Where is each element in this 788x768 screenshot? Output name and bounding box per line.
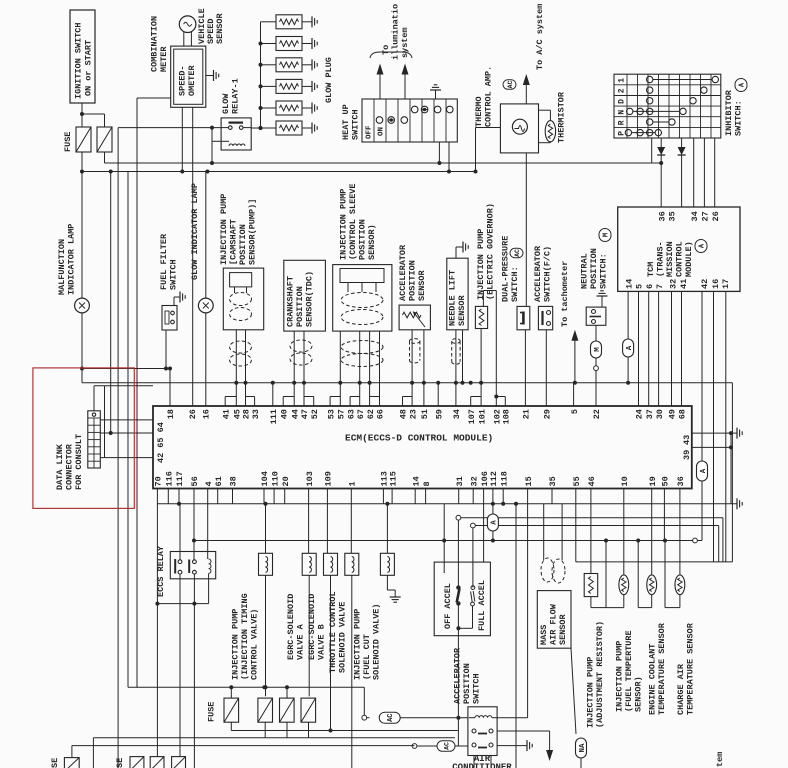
svg-text:(ELECTRIC GOVERNOR): (ELECTRIC GOVERNOR) (486, 203, 496, 300)
inhibitor diode wires (652, 138, 686, 207)
wire fuse2 to bus A (104, 152, 106, 163)
svg-text:SE: SE (50, 758, 60, 768)
engine coolant temperature sensor (638, 541, 656, 608)
svg-text:18: 18 (166, 409, 176, 419)
svg-text:16: 16 (201, 409, 211, 419)
svg-text:SOLENOID VALVE: SOLENOID VALVE (338, 602, 348, 673)
svg-text:108: 108 (502, 409, 512, 424)
fuse EGRC A (280, 698, 295, 722)
bottom horizontal line y737.7 (93, 737, 455, 739)
wires needle lift (454, 330, 465, 406)
ground neutral switch (597, 291, 608, 307)
svg-text:POSITION: POSITION (358, 219, 368, 260)
svg-text:115: 115 (388, 471, 398, 486)
svg-text:109: 109 (324, 471, 334, 486)
svg-text:47: 47 (300, 409, 310, 419)
throttle control solenoid valve (345, 553, 359, 575)
svg-text:INJECTION PUMP: INJECTION PUMP (339, 189, 349, 260)
dual-pressure switch label (501, 236, 524, 302)
svg-text:THERMO: THERMO (474, 96, 484, 127)
needle lift sensor box (447, 258, 468, 330)
fuse ECCS (224, 698, 239, 722)
svg-text:63: 63 (346, 409, 356, 419)
svg-text:VALVE A: VALVE A (296, 623, 306, 660)
glow plug 6 (259, 121, 318, 135)
svg-text:101: 101 (477, 409, 487, 424)
long vertical feeder wires (111, 128, 128, 768)
svg-text:To: To (381, 45, 391, 55)
wire TCM 14 to A pill (623, 291, 634, 384)
svg-text:40: 40 (279, 409, 289, 419)
svg-text:SWITCH:: SWITCH: (510, 266, 520, 302)
AC pill 2 (412, 741, 468, 752)
svg-text:SWITCH(F/C): SWITCH(F/C) (543, 246, 553, 302)
svg-text:ECM(ECCS-D CONTROL MODULE): ECM(ECCS-D CONTROL MODULE) (345, 433, 493, 444)
glow indicator lamp (198, 298, 213, 313)
to tachometer arrow (560, 261, 578, 385)
svg-text:CONTROL VALVE): CONTROL VALVE) (250, 609, 260, 680)
camshaft sensor box (223, 268, 263, 330)
svg-text:37: 37 (645, 409, 655, 419)
svg-text:(FUEL CUT: (FUEL CUT (362, 634, 372, 680)
injection pump control sleeve position sensor label (339, 183, 378, 260)
control sleeve lower coil (341, 341, 383, 367)
TCM box (618, 207, 740, 291)
svg-text:50: 50 (661, 476, 671, 486)
bottom fuse 4 (172, 757, 186, 768)
needle lift cylinder (452, 339, 460, 344)
svg-text:OMETER: OMETER (187, 64, 197, 96)
svg-text:To tachometer: To tachometer (560, 261, 570, 327)
svg-text:INJECTION PUMP: INJECTION PUMP (476, 229, 486, 300)
wire feeder x104 (104, 386, 106, 458)
svg-text:36: 36 (657, 211, 667, 221)
crankshaft sensor coil (290, 340, 312, 365)
ground needle lift sensor (456, 242, 468, 259)
svg-text:AC: AC (507, 80, 514, 88)
svg-text:INJECTION PUMP: INJECTION PUMP (231, 609, 241, 680)
thermistor (539, 91, 567, 143)
svg-text:116: 116 (165, 471, 175, 486)
fuse F2 (97, 127, 112, 152)
glow plug 2 (259, 37, 318, 51)
svg-text:AIR FLOW: AIR FLOW (549, 603, 559, 645)
bus D horizontal y504 (157, 502, 737, 506)
glow plug 1 (261, 15, 318, 29)
svg-text:A: A (626, 345, 634, 350)
line y730.5 (231, 729, 457, 733)
wire glow relay right to glow plug bus (251, 126, 262, 130)
svg-text:GLOW PLUG: GLOW PLUG (324, 57, 334, 103)
svg-text:SWITCH: SWITCH (472, 673, 482, 704)
electric governor box resistor (475, 306, 487, 328)
svg-text:55: 55 (572, 476, 582, 486)
thermo control amp box (500, 104, 538, 153)
svg-text:GLOW: GLOW (221, 93, 231, 114)
ECM top pin number labels (166, 409, 688, 424)
bus B horizontal (80, 170, 476, 174)
svg-text:52: 52 (310, 409, 320, 419)
svg-text:SENSOR: SENSOR (215, 12, 225, 44)
svg-text:2: 2 (618, 88, 627, 93)
wires relay right ground and arrow (497, 718, 553, 761)
svg-text:27: 27 (701, 211, 711, 221)
svg-text:SENSOR: SENSOR (457, 294, 467, 326)
svg-text:SENSOR): SENSOR) (634, 676, 644, 712)
wire ECM pin 39 (692, 433, 733, 504)
svg-text:system: system (400, 27, 410, 58)
wires crankshaft sensor to pins 40 44 47 52 (283, 331, 314, 406)
svg-text:41: 41 (679, 279, 689, 289)
mass air flow sensor coil (541, 504, 565, 583)
accelerator position sensor box potentiometer (399, 305, 430, 330)
wire speedometer left branch (137, 98, 171, 688)
svg-text:67: 67 (356, 409, 366, 419)
label To illumination system (381, 4, 410, 60)
svg-text:IGNITION SWITCH: IGNITION SWITCH (74, 22, 84, 99)
glow plug 5 (259, 101, 318, 115)
wire y368 to ECM pin 18 (80, 367, 172, 407)
TCM bottom pin labels (624, 279, 731, 289)
wires relay bottom (474, 756, 491, 768)
malfunction indicator lamp (57, 224, 89, 313)
wire malfunction lamp down (81, 313, 83, 383)
EGRC solenoid B label (307, 594, 327, 660)
svg-text:SENSOR: SENSOR (417, 269, 427, 301)
svg-text:CONDITIONER: CONDITIONER (452, 763, 512, 768)
wires heat up switch bottom (439, 142, 449, 172)
ECCS relay box (170, 552, 215, 579)
wires camshaft sensor to ECM pins 41 45 28 33 (225, 330, 254, 406)
vehicle speed sensor (179, 8, 225, 44)
heat up switch label (341, 104, 361, 140)
svg-text:M: M (594, 347, 602, 352)
svg-text:17: 17 (721, 279, 731, 289)
bus I horizontal y525.5 (471, 523, 719, 562)
accelerator position switch label (453, 647, 482, 704)
line E y687.2 (128, 685, 364, 715)
svg-text:32: 32 (469, 476, 479, 486)
svg-text:38: 38 (229, 476, 239, 486)
svg-text:NEEDLE LIFT: NEEDLE LIFT (448, 270, 458, 326)
wire ignition to fuses (80, 103, 105, 127)
svg-text:ON or START: ON or START (84, 40, 94, 96)
NA pill (576, 738, 587, 768)
wire fuse bottoms (231, 722, 308, 738)
svg-text:51: 51 (420, 409, 430, 419)
svg-text:TEMPERATURE SENSOR: TEMPERATURE SENSOR (686, 622, 696, 715)
svg-text:30: 30 (655, 409, 665, 419)
fuse F1 (76, 127, 91, 152)
svg-text:VALVE B: VALVE B (317, 624, 327, 660)
thermo control amp label (474, 66, 516, 127)
svg-text:48: 48 (399, 409, 409, 419)
adjustment resistor label (586, 621, 606, 728)
glow plug bus (260, 22, 262, 128)
wire DLC up (94, 386, 153, 411)
bottom fuse 3 (150, 757, 164, 768)
svg-text:MASS: MASS (539, 625, 549, 645)
svg-text:CONTROL: CONTROL (675, 241, 685, 277)
svg-text:22: 22 (592, 409, 602, 419)
svg-text:24: 24 (635, 409, 645, 419)
svg-text:14: 14 (624, 279, 634, 289)
svg-text:EGRC-SOLENOID: EGRC-SOLENOID (307, 594, 317, 660)
svg-text:SPEED-: SPEED- (178, 65, 188, 96)
svg-text:ACCELERATOR: ACCELERATOR (453, 647, 463, 704)
svg-text:MALFUNCTION: MALFUNCTION (57, 239, 67, 295)
svg-text:MODULE): MODULE) (684, 241, 694, 277)
bus H horizontal y517.7 (456, 515, 723, 562)
wires off/full accel box (444, 504, 483, 746)
A pill on pin 112 wire (487, 514, 498, 543)
air conditioner relay box (468, 707, 497, 756)
svg-text:FULL ACCEL: FULL ACCEL (477, 580, 487, 631)
injection pump injection timing control valve solenoid (259, 553, 273, 575)
crankshaft position sensor box (284, 260, 326, 331)
heat up switch box (362, 99, 457, 142)
accelerator switch F/C label (533, 245, 553, 302)
svg-text:RELAY-1: RELAY-1 (231, 78, 241, 114)
svg-text:SENSOR: SENSOR (558, 613, 568, 645)
svg-text:D: D (618, 99, 627, 104)
wire TCM 42 down with A pill (697, 291, 708, 540)
svg-text:OFF: OFF (366, 125, 374, 139)
ground bus D right (737, 498, 742, 509)
svg-text:SWITCH:: SWITCH: (734, 100, 744, 136)
fuse timing valve (258, 698, 273, 722)
svg-text:56: 56 (190, 476, 200, 486)
wire thermo amp down to dual-pressure switch (525, 153, 527, 307)
wire pin 26 from speedometer (192, 107, 194, 406)
svg-text:(CONTROL SLEEVE: (CONTROL SLEEVE (348, 183, 358, 260)
mass air flow sensor box (537, 591, 571, 649)
svg-text:36: 36 (676, 476, 686, 486)
wire bus D down at 516 (515, 504, 517, 768)
wires ECCS relay bottom (157, 574, 208, 768)
svg-text:EGRC-SOLENOID: EGRC-SOLENOID (286, 594, 296, 660)
svg-text:POSITION: POSITION (462, 663, 472, 704)
wires heat up switch to illumination (370, 52, 412, 99)
svg-text:CRANKSHAFT: CRANKSHAFT (286, 276, 296, 327)
glow plug 3 (259, 58, 318, 72)
svg-text:A: A (491, 520, 499, 525)
svg-text:CHARGE AIR: CHARGE AIR (676, 663, 686, 715)
accelerator position sensor label (398, 244, 427, 301)
svg-text:(TRANS-: (TRANS- (656, 241, 666, 277)
bus C horizontal y382 (82, 382, 732, 384)
wires TCM to ECM pins 24 37 30 49 68 (639, 291, 682, 406)
EGRC solenoid A label (286, 594, 306, 660)
svg-text:INJECTION PUMP: INJECTION PUMP (219, 194, 229, 265)
svg-text:21: 21 (522, 409, 532, 419)
svg-text:To A/C system: To A/C system (535, 4, 545, 70)
svg-text:[CAMSHAFT: [CAMSHAFT (229, 219, 239, 265)
wires control sleeve to pins 53 57 63 67 62 66 (330, 331, 379, 406)
svg-text:110: 110 (270, 471, 280, 486)
svg-text:FUSE: FUSE (207, 702, 217, 722)
ignition switch box ON or START (70, 10, 95, 103)
data link connector (88, 411, 101, 468)
injection pump fuel cut solenoid valve (380, 553, 394, 575)
svg-text:SWITCH: SWITCH (169, 259, 179, 290)
svg-text:111: 111 (269, 409, 279, 424)
wire fuel filter down (164, 330, 168, 371)
wire ECM pin 43 to ground (692, 428, 742, 439)
svg-text:5: 5 (570, 409, 580, 414)
solenoid labels column 1 (231, 593, 260, 680)
bus A horizontal (105, 161, 664, 165)
wire fuse1 down (81, 152, 83, 298)
fuel cut solenoid label (353, 603, 382, 680)
svg-text:METER: METER (159, 46, 169, 72)
svg-text:HEAT UP: HEAT UP (341, 104, 351, 140)
svg-text:(INJECTION TIMING: (INJECTION TIMING (240, 593, 250, 680)
wires solenoids down (264, 575, 401, 768)
TCM top pin labels 36 35 34 27 26 (657, 211, 721, 221)
inhibitor to TCM wires (694, 138, 715, 207)
svg-text:OFF ACCEL: OFF ACCEL (443, 583, 453, 629)
svg-text:20: 20 (281, 476, 291, 486)
svg-text:AC: AC (387, 713, 395, 721)
inhibitor switch box grid (614, 74, 721, 138)
svg-text:23: 23 (408, 409, 418, 419)
combination meter label (150, 16, 170, 72)
svg-text:ACCELERATOR: ACCELERATOR (533, 245, 543, 302)
svg-text:INDICATOR LAMP: INDICATOR LAMP (67, 224, 77, 295)
svg-text:INJECTION PUMP: INJECTION PUMP (615, 641, 625, 712)
wires DLC to ECM pins 64 65 42 (100, 420, 153, 458)
svg-text:DUAL-PRESSURE: DUAL-PRESSURE (501, 236, 511, 302)
injection pump adjustment resistor box (584, 574, 606, 608)
svg-text:4: 4 (204, 481, 214, 486)
wire glow lamp pin16 (205, 172, 207, 407)
svg-text:5: 5 (635, 284, 645, 289)
svg-text:SENSOR): SENSOR) (367, 224, 377, 260)
charge air temperature sensor (665, 541, 685, 608)
red consult frame (33, 368, 134, 509)
svg-text:NA: NA (579, 743, 587, 753)
dual-pressure switch box (517, 306, 530, 329)
svg-text:49: 49 (668, 409, 678, 419)
svg-text:35: 35 (668, 211, 678, 221)
fuel filter switch label (159, 233, 179, 290)
svg-text:SOLENOID VALVE): SOLENOID VALVE) (372, 603, 382, 680)
svg-text:INJECTION PUMP: INJECTION PUMP (586, 657, 596, 728)
ECM right pin labels 39 43 (682, 435, 692, 460)
svg-text:ECCS RELAY: ECCS RELAY (156, 545, 166, 597)
throttle control solenoid label (328, 591, 348, 673)
svg-text:34: 34 (452, 409, 462, 419)
svg-text:42 65 64: 42 65 64 (156, 422, 166, 463)
glow relay-1 label (221, 78, 241, 114)
wire pin 59 (436, 381, 440, 406)
injection pump camshaft position sensor label (219, 194, 258, 265)
svg-text:SENSOR(PUMP)]: SENSOR(PUMP)] (248, 199, 258, 265)
svg-text:ACCELERATOR: ACCELERATOR (398, 244, 408, 301)
fuel filter switch (162, 306, 177, 331)
camshaft sensor lower coil (230, 341, 252, 366)
svg-text:8: 8 (422, 481, 432, 486)
svg-text:62: 62 (366, 409, 376, 419)
svg-text:TCM: TCM (646, 262, 656, 277)
svg-text:illuminatio: illuminatio (391, 4, 401, 60)
off accel full accel switch box (434, 562, 490, 636)
svg-text:61: 61 (214, 476, 224, 486)
control sleeve sensor box (333, 265, 392, 332)
glow plug 4 (259, 79, 318, 93)
bus G horizontal y540 (194, 539, 702, 543)
svg-text:ENGINE COOLANT: ENGINE COOLANT (648, 644, 658, 715)
glow relay-1 box (221, 118, 251, 150)
svg-text:INJECTION PUMP: INJECTION PUMP (353, 609, 363, 680)
wire thermo amp left to bus B (474, 128, 501, 174)
svg-text:57: 57 (337, 409, 347, 419)
ground fuel filter (174, 292, 185, 306)
neutral position switch box (586, 307, 606, 325)
svg-text:117: 117 (175, 471, 185, 486)
svg-text:34: 34 (690, 211, 700, 221)
fuse EGRC B (301, 698, 316, 722)
svg-text:15: 15 (524, 476, 534, 486)
svg-text:AC: AC (514, 249, 521, 257)
svg-text:42: 42 (700, 279, 710, 289)
AC pill 1 (362, 712, 468, 723)
ECM ECCS-D control module box (153, 406, 692, 489)
svg-text:(FUEL TEMPERTURE: (FUEL TEMPERTURE (624, 630, 634, 712)
svg-text:R: R (618, 120, 627, 125)
svg-text:TEMPERATURE SENSOR: TEMPERATURE SENSOR (657, 622, 667, 715)
wire fuse3m feed (285, 685, 289, 698)
svg-text:29: 29 (543, 409, 553, 419)
engine coolant label (648, 622, 668, 715)
EGRC-solenoid valve A (302, 553, 316, 575)
ground speedometer (206, 70, 219, 81)
svg-text:INHIBITOR: INHIBITOR (724, 89, 734, 136)
svg-text:44: 44 (290, 409, 300, 419)
svg-text:19: 19 (648, 476, 658, 486)
svg-text:THROTTLE CONTROL: THROTTLE CONTROL (328, 591, 338, 673)
svg-text:68: 68 (678, 409, 688, 419)
inhibitor switch label (724, 79, 747, 137)
wire bus C right corner down (731, 383, 733, 562)
wires accel position sensor pins 48 23 51 (403, 330, 426, 406)
svg-text:POSITION: POSITION (408, 260, 418, 301)
svg-text:N: N (618, 110, 627, 115)
svg-text:1: 1 (348, 481, 358, 486)
injection pump electric governor label (476, 203, 496, 300)
wire speedometer down to bus B (180, 107, 184, 173)
svg-text:NEUTRAL: NEUTRAL (580, 253, 590, 289)
svg-text:CONNECTOR: CONNECTOR (65, 443, 75, 490)
svg-text:53: 53 (326, 409, 336, 419)
svg-text:107: 107 (467, 409, 477, 424)
speedometer box (171, 46, 206, 107)
svg-text:POSITION: POSITION (238, 224, 248, 265)
neutral position switch label (580, 229, 612, 290)
wire to A/C system arrow (523, 4, 545, 104)
svg-text:31: 31 (455, 476, 465, 486)
accelerator switch F/C box (538, 306, 552, 329)
svg-text:FUSE: FUSE (63, 132, 73, 152)
svg-text:26: 26 (188, 409, 198, 419)
wire speed sensor to speedometer (184, 32, 192, 46)
svg-text:33: 33 (251, 409, 261, 419)
svg-text:26: 26 (711, 211, 721, 221)
bottom fuse 1 (64, 746, 79, 768)
svg-text:16: 16 (711, 279, 721, 289)
svg-text:GLOW INDICATOR LAMP: GLOW INDICATOR LAMP (190, 183, 200, 280)
